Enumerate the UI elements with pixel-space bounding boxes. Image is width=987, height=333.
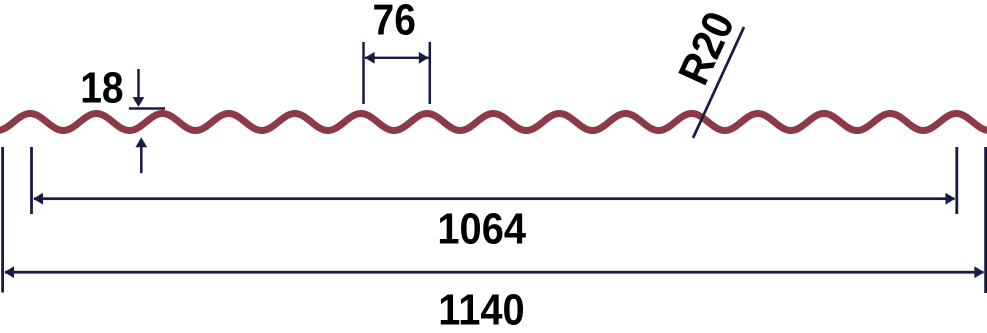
svg-text:18: 18: [80, 64, 123, 112]
svg-text:1064: 1064: [437, 204, 526, 253]
svg-text:1140: 1140: [438, 285, 524, 333]
svg-text:76: 76: [373, 0, 416, 44]
